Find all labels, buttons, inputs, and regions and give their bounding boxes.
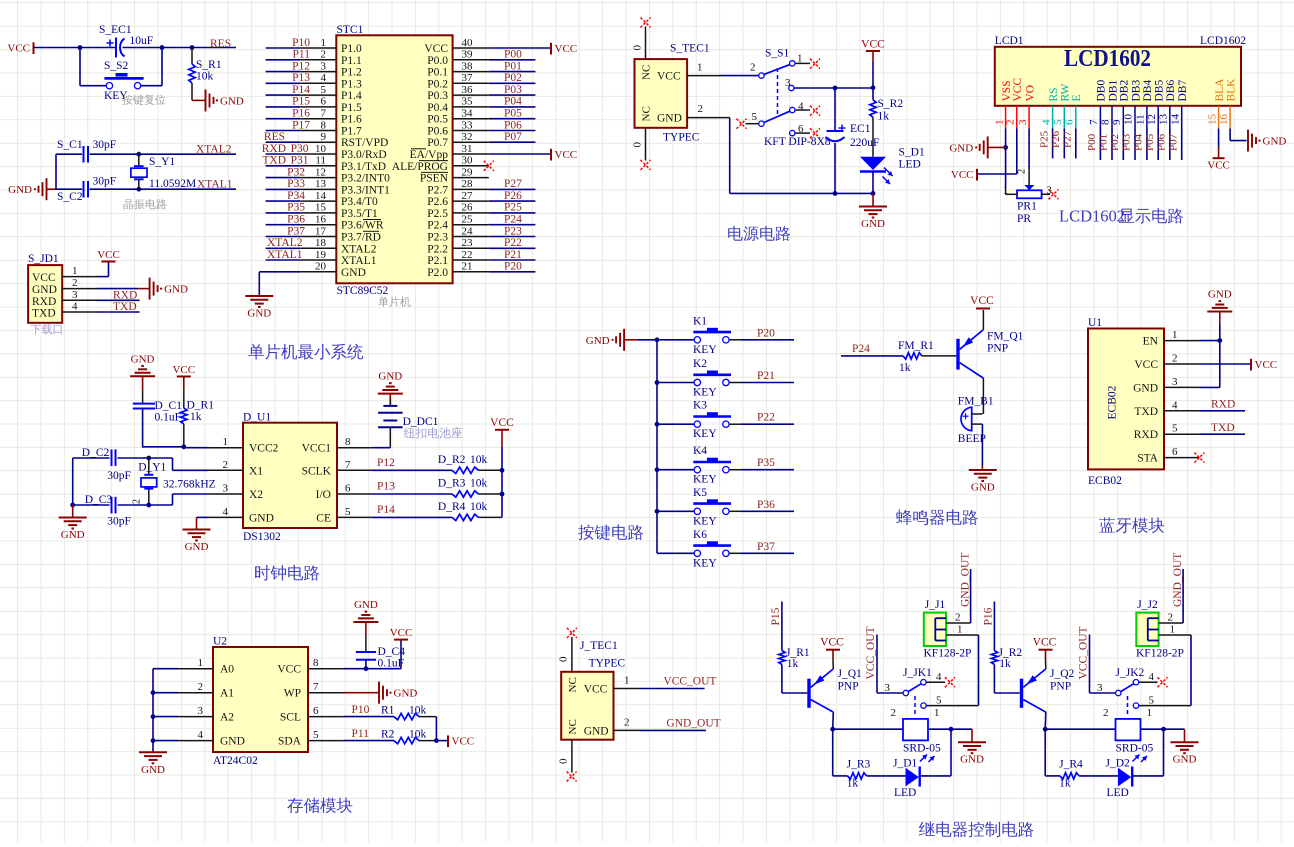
- pin 2 U2 A1: [178, 681, 234, 700]
- wire VCC_OUT to switch J_JK1: [877, 635, 903, 694]
- stub bottom J_TEC1 pin 0: [558, 740, 572, 773]
- svg-text:3: 3: [1097, 682, 1103, 694]
- resistor J_R4 1k: [1059, 759, 1083, 790]
- svg-text:P2.7: P2.7: [427, 184, 448, 196]
- wire VCC pin to VCC port: [1199, 363, 1251, 365]
- relay coil pin 1 label: [1147, 707, 1153, 719]
- svg-text:RW: RW: [1060, 83, 1072, 101]
- svg-text:5: 5: [313, 729, 319, 741]
- svg-text:KEY: KEY: [693, 387, 717, 399]
- capacitor S_EC1 10uF: [99, 24, 153, 58]
- wire collector of J_Q1 to relay coil: [833, 712, 903, 729]
- svg-text:30: 30: [462, 155, 474, 167]
- svg-text:11: 11: [315, 155, 326, 167]
- net label P24: [852, 343, 870, 355]
- pin 32 STC1 P0.7: [427, 131, 489, 149]
- pin 5 U2 SDA: [278, 729, 344, 748]
- svg-text:P1.3: P1.3: [341, 78, 362, 90]
- svg-text:P3.1/TxD: P3.1/TxD: [341, 161, 386, 173]
- svg-text:1k: 1k: [899, 362, 911, 374]
- svg-text:RES: RES: [210, 38, 231, 50]
- svg-text:P15: P15: [770, 607, 782, 625]
- wire RXD pin with net label TXD: [1199, 422, 1245, 434]
- svg-text:XTAL1: XTAL1: [341, 255, 377, 267]
- svg-text:XTAL2: XTAL2: [267, 237, 303, 249]
- svg-text:S_JD1: S_JD1: [28, 253, 59, 265]
- wire and net label P02 (STC right): [489, 72, 536, 84]
- svg-text:2: 2: [955, 612, 961, 624]
- pin 8 STC1 P1.7: [266, 119, 362, 137]
- svg-text:11: 11: [1135, 114, 1147, 125]
- wire SCL with net label P10: [344, 704, 394, 717]
- node junction VCC2 wire: [181, 444, 186, 449]
- ground (reset circuit): [206, 89, 244, 111]
- svg-text:P02: P02: [1109, 134, 1121, 151]
- svg-text:P01: P01: [1098, 134, 1110, 151]
- svg-text:0.1uF: 0.1uF: [378, 658, 405, 670]
- svg-text:SCLK: SCLK: [302, 465, 332, 477]
- svg-text:P14: P14: [377, 504, 395, 516]
- node junction EC1 bottom: [833, 191, 838, 196]
- net label GND_OUT: [666, 718, 720, 730]
- svg-text:KEY: KEY: [693, 428, 717, 440]
- svg-text:VCC2: VCC2: [249, 443, 279, 455]
- push button K5 KEY: [693, 487, 731, 528]
- net label P36: [757, 499, 775, 511]
- svg-text:GND: GND: [220, 736, 245, 748]
- svg-text:GND: GND: [657, 113, 682, 125]
- connector S_JD1 下载口: [28, 253, 62, 323]
- wire collector node down to J_R3: [833, 729, 848, 776]
- svg-text:2: 2: [1172, 353, 1178, 365]
- pin 2 U1 VCC: [1134, 353, 1199, 372]
- ground (clock pin4): [183, 530, 211, 554]
- pin 4 U1 TXD: [1134, 399, 1199, 418]
- caption 存储模块: [287, 797, 352, 813]
- svg-text:18: 18: [315, 237, 327, 249]
- svg-text:P24: P24: [852, 343, 870, 355]
- svg-text:J_D2: J_D2: [1106, 758, 1131, 770]
- svg-text:GND: GND: [861, 218, 885, 230]
- svg-text:S_EC1: S_EC1: [99, 24, 132, 36]
- svg-text:11.0592M: 11.0592M: [149, 178, 196, 190]
- wire VCC_OUT net: [640, 688, 705, 690]
- wire and net label P07 (LCD): [1167, 129, 1181, 161]
- svg-text:P04: P04: [504, 96, 522, 108]
- power port VCC (pin31 EA): [551, 149, 577, 161]
- svg-text:2: 2: [198, 681, 204, 693]
- svg-text:1: 1: [223, 436, 229, 448]
- net label P17 (STC left): [292, 119, 310, 131]
- node junction key bus row 5: [655, 509, 660, 514]
- svg-text:P26: P26: [1050, 130, 1062, 148]
- net label P35 (STC left): [287, 202, 305, 214]
- svg-text:GND: GND: [220, 95, 244, 107]
- wire XTAL2 net: [56, 153, 236, 155]
- wire resistor to LED: [872, 117, 874, 156]
- wire GND pin 4 (clock): [197, 517, 209, 529]
- svg-text:P22: P22: [757, 412, 775, 424]
- svg-text:E: E: [1071, 94, 1083, 101]
- svg-text:10k: 10k: [470, 501, 488, 513]
- svg-text:1: 1: [198, 657, 204, 669]
- svg-text:P36: P36: [287, 214, 305, 226]
- wire LED to ground rail: [872, 172, 874, 194]
- svg-text:J_TEC1: J_TEC1: [580, 640, 618, 652]
- svg-text:PNP: PNP: [1050, 681, 1071, 693]
- svg-text:RXD: RXD: [32, 296, 56, 308]
- power port VCC (D_R1): [172, 364, 195, 377]
- wire VSS to ground junction: [1005, 129, 1007, 189]
- svg-text:32.768kHZ: 32.768kHZ: [163, 479, 216, 491]
- svg-text:9: 9: [1111, 119, 1123, 125]
- svg-text:8: 8: [313, 657, 319, 669]
- svg-text:KF128-2P: KF128-2P: [1136, 648, 1184, 660]
- wire relay pin1 to ground node: [928, 728, 951, 730]
- svg-text:3: 3: [198, 705, 204, 717]
- resistor FM_R1 1k: [898, 340, 934, 374]
- relay SRD-05 coil pin 2 label: [891, 707, 897, 719]
- svg-text:P12: P12: [377, 457, 395, 469]
- svg-text:P27: P27: [1062, 130, 1074, 148]
- resistor D_R3 10k: [372, 478, 502, 498]
- net label P32 (STC left): [287, 166, 305, 178]
- svg-text:P23: P23: [504, 225, 522, 237]
- wire K5 to P36: [729, 510, 794, 512]
- clock chip D_U1 DS1302 body: [243, 412, 337, 544]
- net label XTAL2 (STC): [267, 237, 303, 249]
- pin 24 STC1 P2.3: [427, 225, 489, 243]
- potentiometer PR1 PR: [1003, 169, 1052, 225]
- svg-text:VO: VO: [1024, 85, 1036, 102]
- wire resistor to base: [922, 355, 956, 357]
- svg-text:VCC: VCC: [820, 637, 844, 649]
- ground above D_C4: [353, 599, 378, 622]
- node junction left bus (clock): [70, 503, 75, 508]
- svg-text:D_U1: D_U1: [243, 412, 271, 424]
- svg-text:P3.6/WR: P3.6/WR: [341, 220, 384, 232]
- svg-text:VCC_OUT: VCC_OUT: [865, 626, 877, 679]
- svg-text:10k: 10k: [470, 478, 488, 490]
- net label P10 (STC left): [292, 37, 310, 49]
- no connect X pin30: [484, 161, 494, 171]
- svg-text:P16: P16: [292, 108, 310, 120]
- wire VCC pin to VCC port (storage): [344, 640, 401, 669]
- svg-text:NC: NC: [567, 719, 579, 734]
- wire and net label P01 (STC right): [489, 60, 536, 72]
- svg-text:P33: P33: [287, 178, 305, 190]
- pin 11 STC1 P3.1/TxD: [266, 155, 386, 173]
- svg-text:1: 1: [1170, 624, 1176, 636]
- svg-text:P03: P03: [1121, 133, 1133, 151]
- svg-text:25: 25: [462, 214, 474, 226]
- svg-text:3: 3: [885, 682, 891, 694]
- pin 10 LCD DB3: [1123, 80, 1143, 129]
- pin 11 LCD DB4: [1135, 80, 1155, 129]
- svg-text:K3: K3: [693, 400, 707, 412]
- svg-text:GND: GND: [185, 541, 209, 553]
- pin 3 D_U1 X2: [208, 483, 263, 502]
- pin 1 U2 A0: [178, 657, 234, 676]
- pin 2 J_TEC1 GND: [614, 717, 641, 731]
- ground (power circuit): [859, 193, 887, 230]
- svg-text:P34: P34: [287, 190, 305, 202]
- svg-text:GND: GND: [586, 335, 610, 347]
- svg-text:2: 2: [132, 499, 143, 504]
- svg-text:P21: P21: [757, 370, 775, 382]
- pin 6 U1 STA: [1137, 446, 1199, 465]
- push button K4 KEY: [693, 445, 731, 486]
- svg-text:GND: GND: [378, 371, 402, 383]
- svg-text:I/O: I/O: [316, 489, 331, 501]
- wire and net label P27 (LCD): [1062, 129, 1076, 159]
- svg-text:1: 1: [72, 265, 78, 277]
- wire and net label P21 (STC right): [489, 249, 536, 261]
- svg-text:14: 14: [1169, 114, 1181, 126]
- svg-text:EC1: EC1: [850, 123, 871, 135]
- svg-text:PR: PR: [1017, 213, 1031, 225]
- wire collector node down to J_R4: [1045, 729, 1060, 776]
- svg-text:D_R3: D_R3: [438, 478, 466, 490]
- svg-text:P1.1: P1.1: [341, 55, 362, 67]
- svg-text:RXD: RXD: [262, 143, 286, 155]
- svg-text:VCC: VCC: [490, 417, 514, 429]
- svg-text:K4: K4: [693, 445, 707, 457]
- LED J_D1: [893, 758, 920, 800]
- svg-text:S_D1: S_D1: [899, 147, 925, 159]
- svg-text:4: 4: [1040, 119, 1052, 125]
- node junction VCC pin U2: [364, 666, 369, 671]
- wire and net label P26 (STC right): [489, 190, 536, 202]
- svg-text:P07: P07: [504, 131, 522, 143]
- svg-text:P35: P35: [757, 457, 775, 469]
- svg-text:GND: GND: [971, 482, 995, 494]
- svg-text:P32: P32: [287, 166, 305, 178]
- wire and net label P03 (LCD): [1121, 129, 1135, 161]
- svg-text:AT24C02: AT24C02: [213, 755, 258, 767]
- svg-text:SRD-05: SRD-05: [903, 743, 941, 755]
- svg-text:4: 4: [1149, 671, 1155, 683]
- svg-text:10uF: 10uF: [130, 35, 154, 47]
- battery D_DC1 纽扣电池座: [378, 394, 462, 439]
- ground (relay 1): [958, 742, 986, 766]
- svg-text:P0.3: P0.3: [427, 90, 448, 102]
- svg-text:P36: P36: [757, 499, 775, 511]
- svg-text:P1.2: P1.2: [341, 67, 362, 79]
- pin 6 LCD E: [1064, 94, 1084, 128]
- svg-text:ECB02: ECB02: [1088, 475, 1122, 487]
- svg-text:GND_OUT: GND_OUT: [1172, 553, 1184, 607]
- svg-text:J_Q1: J_Q1: [838, 668, 863, 680]
- svg-text:WP: WP: [284, 688, 301, 700]
- pin 5 LCD RW: [1052, 83, 1072, 128]
- svg-text:GND: GND: [249, 512, 274, 524]
- wire R1 to pullup rail: [435, 717, 437, 741]
- svg-text:P12: P12: [292, 60, 310, 72]
- svg-text:0: 0: [632, 142, 644, 148]
- power port VCC (J_Q2): [1033, 637, 1057, 669]
- svg-text:34: 34: [462, 108, 474, 120]
- svg-text:J_JK1: J_JK1: [903, 667, 932, 679]
- svg-text:DB3: DB3: [1130, 80, 1142, 102]
- capacitor S_C2 30pF: [57, 176, 116, 204]
- svg-text:TXD: TXD: [262, 155, 286, 167]
- wire K3 to P22: [729, 423, 794, 425]
- wire down-right to push button: [141, 48, 162, 86]
- svg-text:19: 19: [315, 249, 327, 261]
- caption 蓝牙模块: [1099, 517, 1164, 533]
- net label GND_OUT (relay 1, rotated): [959, 553, 971, 607]
- svg-text:U2: U2: [213, 636, 227, 648]
- ground (download): [150, 278, 188, 300]
- svg-text:1: 1: [321, 37, 327, 49]
- wire and net label P00 (LCD): [1086, 129, 1100, 161]
- svg-text:2: 2: [72, 277, 78, 289]
- net label P14: [377, 504, 395, 516]
- svg-text:2: 2: [223, 459, 229, 471]
- wire BLK to ground: [1230, 129, 1246, 141]
- wire ground to key bus: [624, 339, 657, 341]
- power port VCC (clock pullups): [490, 417, 514, 447]
- stub and X at J_JK2 pin4: [1139, 677, 1168, 687]
- svg-text:P3.0/RxD: P3.0/RxD: [341, 149, 387, 161]
- svg-text:GND: GND: [61, 529, 85, 541]
- svg-text:P05: P05: [504, 108, 522, 120]
- caption 电源电路: [728, 226, 790, 241]
- svg-text:0: 0: [632, 45, 644, 51]
- wire and net label P01 (LCD): [1098, 129, 1112, 161]
- wire K6 to P37: [729, 552, 794, 554]
- pin 2 D_U1 X1: [208, 459, 263, 478]
- capacitor D_C3 30pF: [73, 494, 149, 528]
- crystal S_Y1 11.0592M: [131, 154, 196, 190]
- wire and net label P07 (STC right): [489, 131, 536, 143]
- pin 4 U2 GND: [178, 729, 245, 748]
- svg-text:KEY: KEY: [693, 557, 717, 569]
- svg-text:VSS: VSS: [1001, 80, 1013, 101]
- svg-text:XTAL2: XTAL2: [341, 243, 377, 255]
- pin 29 STC1 PSEN: [420, 166, 489, 184]
- svg-text:PSEN: PSEN: [420, 173, 449, 185]
- svg-text:22: 22: [462, 249, 473, 261]
- svg-text:10k: 10k: [409, 729, 427, 741]
- svg-text:A1: A1: [220, 688, 234, 700]
- svg-text:P10: P10: [292, 37, 310, 49]
- net label P35: [757, 457, 775, 469]
- wire bus to K6: [657, 552, 694, 554]
- resistor D_R2 10k: [372, 454, 502, 474]
- svg-text:GND: GND: [141, 764, 165, 776]
- svg-text:VCC: VCC: [32, 272, 56, 284]
- pin 4 D_U1 GND: [208, 506, 274, 525]
- pin 39 STC1 P0.0: [427, 49, 489, 67]
- svg-text:P27: P27: [504, 178, 522, 190]
- svg-text:D_C1: D_C1: [155, 400, 183, 412]
- wire pot pin1 to VSS rail: [1006, 188, 1017, 194]
- svg-text:2: 2: [891, 707, 897, 719]
- connector S_TEC1 TYPEC body: [635, 43, 710, 144]
- wire K4 to P35: [729, 469, 794, 471]
- node junction GND pin U2: [151, 738, 156, 743]
- pin 7 U2 WP: [284, 681, 344, 700]
- pin 31 STC1 EA/Vpp: [410, 143, 489, 161]
- svg-text:3: 3: [72, 289, 78, 301]
- pin 5 U1 RXD: [1134, 423, 1200, 442]
- comment text 单片机: [378, 296, 411, 306]
- pin 37 STC1 P0.2: [427, 72, 489, 90]
- pin 14 LCD DB7: [1169, 80, 1189, 129]
- svg-text:1: 1: [1147, 707, 1153, 719]
- svg-text:P30: P30: [291, 143, 309, 155]
- svg-text:1k: 1k: [847, 778, 859, 790]
- pin 12 LCD DB5: [1146, 80, 1166, 129]
- svg-text:1: 1: [957, 624, 963, 636]
- pin 3 U1 GND: [1133, 376, 1199, 395]
- wire left cap bus (clock): [72, 458, 74, 505]
- push button S_S2 KEY: [104, 60, 144, 102]
- svg-text:P13: P13: [377, 481, 395, 493]
- svg-text:LCD1602: LCD1602: [1200, 35, 1246, 47]
- pin 5 D_U1 CE: [316, 506, 371, 525]
- node junction collector J_Q2: [1043, 727, 1048, 732]
- svg-text:VCC: VCC: [7, 42, 30, 54]
- pin 13 LCD DB6: [1158, 80, 1178, 129]
- svg-text:1: 1: [993, 120, 1005, 126]
- svg-text:A2: A2: [220, 712, 234, 724]
- svg-text:DB4: DB4: [1142, 80, 1154, 102]
- pin 40 STC1 VCC: [424, 37, 488, 55]
- net label RES (STC left): [264, 131, 285, 143]
- pin 8 LCD DB1: [1100, 80, 1120, 129]
- svg-text:3: 3: [785, 77, 791, 89]
- svg-text:P06: P06: [1156, 133, 1168, 151]
- transistor J_Q2 PNP: [1020, 668, 1075, 712]
- relay SRD-05 body (J_J2 channel): [1116, 719, 1154, 762]
- net label P33 (STC left): [287, 178, 305, 190]
- transistor J_Q1 PNP: [807, 668, 862, 712]
- ground (storage left): [139, 752, 167, 776]
- pin 14 STC1 P3.4/T0: [266, 190, 378, 208]
- svg-text:P04: P04: [1133, 133, 1145, 151]
- wire S_R1 to ground: [192, 99, 206, 101]
- wire and net label P04 (STC right): [489, 96, 536, 108]
- svg-text:VCC: VCC: [452, 735, 475, 747]
- bluetooth module U1 ECB02 body: [1088, 317, 1164, 487]
- svg-text:K6: K6: [693, 529, 707, 541]
- svg-text:13: 13: [315, 178, 327, 190]
- comment text 晶振电路: [124, 199, 167, 210]
- pin 33 STC1 P0.6: [427, 119, 489, 137]
- pin 7 STC1 P1.6: [266, 108, 362, 126]
- svg-text:1k: 1k: [878, 111, 890, 123]
- svg-text:J_R3: J_R3: [847, 759, 871, 771]
- svg-text:10k: 10k: [196, 71, 214, 83]
- svg-text:FM_B1: FM_B1: [958, 396, 994, 408]
- relay SRD-05 coil pin 2 label: [1103, 707, 1109, 719]
- power port VCC (pin40): [551, 43, 577, 55]
- caption 按键电路: [578, 524, 643, 540]
- svg-text:KEY: KEY: [693, 515, 717, 527]
- net label P16 (STC left): [292, 108, 310, 120]
- net label TXD (download): [113, 301, 137, 313]
- wire J_JK2 pin5 to connector: [1139, 635, 1191, 706]
- svg-text:P0.7: P0.7: [427, 137, 448, 149]
- svg-text:GND: GND: [341, 267, 366, 279]
- svg-text:33: 33: [462, 119, 474, 131]
- node junction EC1 top: [833, 86, 838, 91]
- svg-text:VCC: VCC: [424, 43, 448, 55]
- svg-text:P1.5: P1.5: [341, 102, 362, 114]
